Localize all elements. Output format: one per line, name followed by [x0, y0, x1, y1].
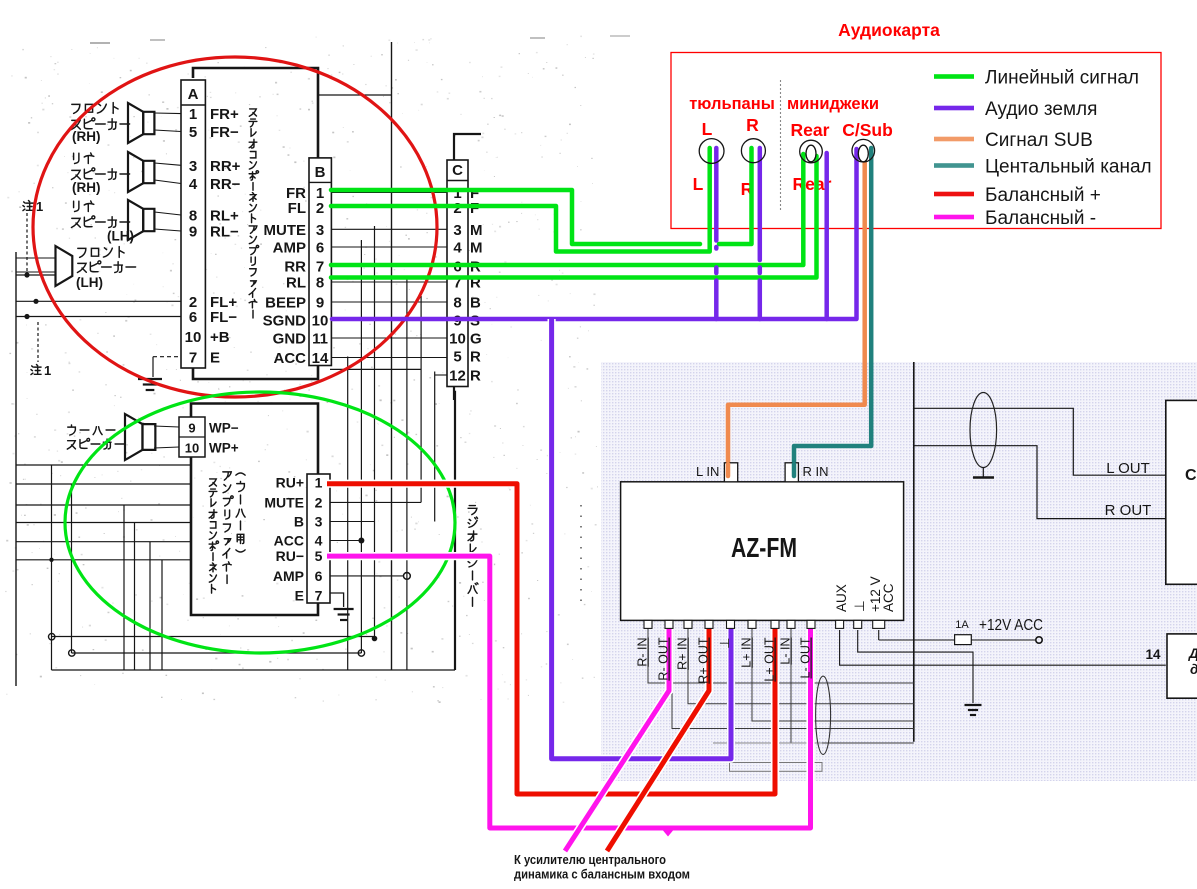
svg-text:WP+: WP+	[209, 441, 239, 456]
svg-text:Сигнал SUB: Сигнал SUB	[985, 130, 1093, 151]
svg-text:12: 12	[449, 368, 466, 385]
svg-text:R- IN: R- IN	[636, 638, 650, 667]
svg-text:1: 1	[36, 199, 43, 214]
svg-text:4: 4	[315, 533, 323, 549]
svg-text:7: 7	[316, 259, 324, 276]
svg-text:14: 14	[312, 350, 329, 367]
svg-text:L+ OUT: L+ OUT	[763, 637, 777, 681]
svg-text:+B: +B	[210, 329, 230, 346]
svg-text:(RH): (RH)	[72, 180, 101, 195]
svg-text:R: R	[746, 115, 759, 135]
svg-text:BEEP: BEEP	[265, 295, 306, 312]
svg-text:B: B	[470, 295, 481, 312]
svg-text:RL+: RL+	[210, 208, 239, 225]
svg-text:B: B	[294, 514, 304, 530]
svg-text:L IN: L IN	[696, 464, 719, 479]
svg-text:G: G	[470, 331, 482, 348]
svg-text:14: 14	[1145, 647, 1161, 662]
svg-text:R+ IN: R+ IN	[676, 638, 690, 670]
svg-text:L- OUT: L- OUT	[799, 637, 813, 678]
svg-text:E: E	[295, 588, 304, 604]
svg-text:11: 11	[312, 331, 328, 348]
svg-text:L: L	[702, 119, 713, 139]
svg-text:E: E	[210, 350, 220, 367]
svg-text:AMP: AMP	[273, 240, 306, 257]
svg-text:3: 3	[189, 158, 197, 175]
svg-text:Аудиокарта: Аудиокарта	[838, 20, 940, 40]
svg-text:9: 9	[316, 295, 324, 312]
svg-text:5: 5	[315, 548, 323, 564]
svg-text:AUX: AUX	[834, 584, 849, 612]
svg-text:10: 10	[185, 441, 199, 456]
svg-text:Rear: Rear	[791, 120, 830, 140]
svg-text:R: R	[470, 349, 481, 366]
svg-text:7: 7	[315, 588, 323, 604]
svg-text:R IN: R IN	[803, 464, 829, 479]
svg-text:⊥: ⊥	[852, 600, 867, 612]
svg-text:C: C	[452, 162, 463, 179]
svg-text:R: R	[470, 368, 481, 385]
svg-text:9: 9	[188, 421, 195, 436]
svg-text:динамика с балансным входом: динамика с балансным входом	[514, 868, 690, 882]
svg-text:Линейный сигнал: Линейный сигнал	[985, 68, 1139, 89]
svg-text:К усилителю центрального: К усилителю центрального	[514, 853, 666, 867]
svg-text:5: 5	[453, 349, 461, 366]
svg-text:2: 2	[315, 494, 323, 510]
svg-text:AZ-FM: AZ-FM	[731, 532, 797, 563]
svg-text:M: M	[470, 240, 483, 257]
svg-text:FL−: FL−	[210, 309, 237, 326]
svg-text:5: 5	[189, 124, 197, 141]
svg-text:L: L	[693, 174, 704, 194]
svg-text:Д: Д	[1188, 646, 1197, 661]
svg-text:FR−: FR−	[210, 124, 239, 141]
svg-text:7: 7	[189, 350, 197, 367]
svg-text:R OUT: R OUT	[1105, 502, 1152, 519]
svg-text:2: 2	[453, 200, 461, 217]
svg-text:L+ IN: L+ IN	[740, 638, 754, 668]
svg-text:2: 2	[316, 200, 324, 217]
svg-text:MUTE: MUTE	[264, 494, 304, 510]
svg-text:1: 1	[315, 475, 323, 491]
svg-text:RL: RL	[286, 275, 306, 292]
svg-text:Балансный +: Балансный +	[985, 185, 1101, 206]
svg-text:(RH): (RH)	[72, 129, 101, 144]
svg-text:AMP: AMP	[273, 568, 304, 584]
svg-text:8: 8	[316, 275, 324, 292]
svg-text:L- IN: L- IN	[779, 638, 793, 665]
svg-text:9: 9	[189, 224, 197, 241]
svg-text:A: A	[188, 86, 199, 103]
svg-text:FR+: FR+	[210, 106, 239, 123]
svg-text:6: 6	[189, 309, 197, 326]
svg-text:L OUT: L OUT	[1106, 460, 1150, 477]
svg-text:3: 3	[316, 222, 324, 239]
svg-text:миниджеки: миниджеки	[787, 95, 879, 113]
svg-text:RR−: RR−	[210, 176, 241, 193]
svg-text:тюльпаны: тюльпаны	[689, 95, 775, 113]
svg-text:10: 10	[185, 329, 202, 346]
svg-text:⊥: ⊥	[717, 638, 732, 649]
svg-text:1: 1	[44, 363, 51, 378]
svg-text:6: 6	[316, 240, 324, 257]
svg-text:R- OUT: R- OUT	[657, 637, 671, 680]
svg-text:B: B	[315, 164, 326, 181]
svg-text:M: M	[470, 222, 483, 239]
svg-text:ACC: ACC	[274, 350, 307, 367]
svg-text:4: 4	[189, 176, 198, 193]
svg-text:10: 10	[312, 313, 329, 330]
svg-text:(LH): (LH)	[76, 275, 103, 290]
svg-text:8: 8	[189, 208, 197, 225]
svg-text:R+ OUT: R+ OUT	[697, 637, 711, 684]
svg-text:6: 6	[315, 568, 323, 584]
svg-text:8: 8	[453, 295, 461, 312]
svg-text:10: 10	[449, 331, 466, 348]
svg-text:С: С	[1185, 467, 1197, 484]
svg-text:RR+: RR+	[210, 158, 241, 175]
svg-text:RU−: RU−	[276, 548, 304, 564]
svg-text:ACC: ACC	[881, 583, 896, 612]
svg-text:MUTE: MUTE	[264, 222, 307, 239]
svg-text:GND: GND	[273, 331, 307, 348]
svg-text:д: д	[1190, 662, 1197, 677]
svg-text:RR: RR	[284, 259, 306, 276]
svg-text:F: F	[470, 200, 479, 217]
svg-text:Балансный -: Балансный -	[985, 208, 1096, 229]
svg-text:1A: 1A	[955, 619, 969, 631]
svg-text:RL−: RL−	[210, 224, 239, 241]
svg-text:1: 1	[189, 106, 197, 123]
svg-text:Аудио земля: Аудио земля	[985, 99, 1097, 120]
svg-text:WP−: WP−	[209, 421, 239, 436]
svg-text:3: 3	[315, 514, 323, 530]
svg-text:ACC: ACC	[274, 533, 304, 549]
svg-text:C/Sub: C/Sub	[842, 120, 893, 140]
svg-text:FL: FL	[288, 200, 306, 217]
svg-text:Центальный канал: Центальный канал	[985, 157, 1152, 178]
svg-text:+12V ACC: +12V ACC	[979, 617, 1043, 634]
svg-text:RU+: RU+	[276, 475, 304, 491]
svg-text:4: 4	[453, 240, 462, 257]
svg-text:3: 3	[453, 222, 461, 239]
svg-text:(LH): (LH)	[107, 229, 134, 244]
svg-text:SGND: SGND	[263, 313, 307, 330]
